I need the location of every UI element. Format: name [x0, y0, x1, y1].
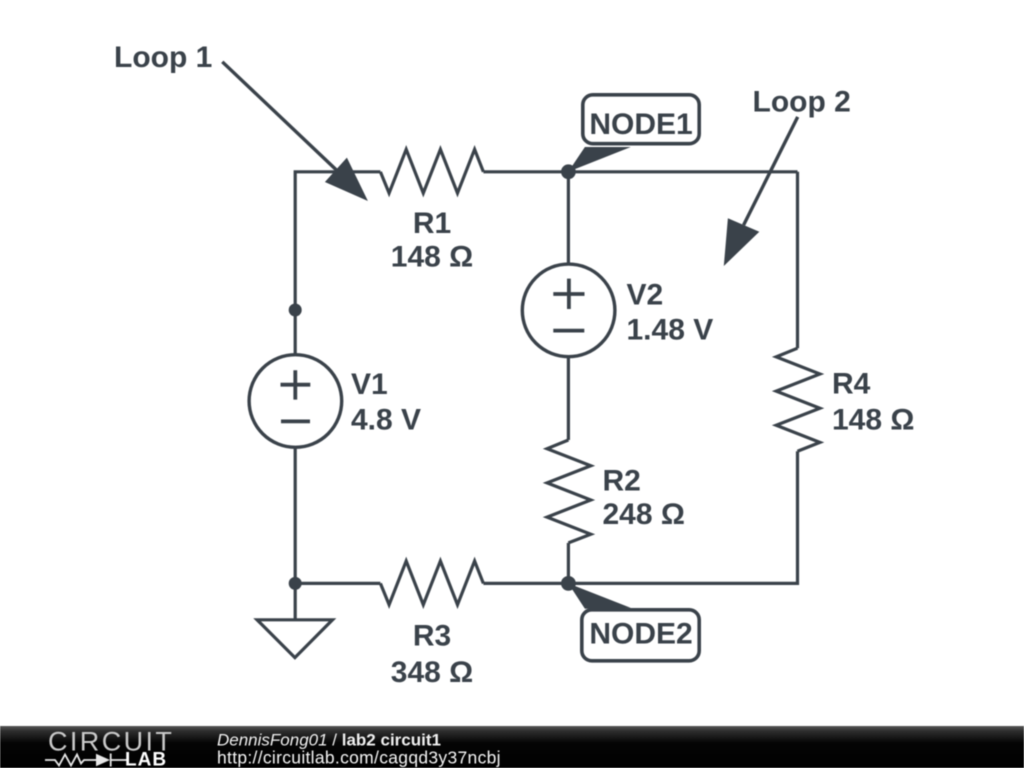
voltage source V2 circle [522, 264, 615, 357]
svg-text:1.48 V: 1.48 V [627, 314, 714, 347]
svg-text:Loop 2: Loop 2 [753, 86, 851, 119]
svg-text:148 Ω: 148 Ω [832, 404, 914, 437]
voltage source V1 circle [249, 355, 342, 448]
wire top-left to R1 [295, 172, 380, 355]
V2 minus sign [553, 329, 584, 333]
svg-text:R2: R2 [603, 465, 641, 498]
svg-text:NODE2: NODE2 [589, 618, 692, 651]
wire R2 to NODE2 [567, 543, 570, 584]
logo waveform resistor and diode [45, 754, 127, 767]
Loop 2 arrowhead [724, 218, 760, 266]
svg-text:http://circuitlab.com/cagqd3y3: http://circuitlab.com/cagqd3y37ncbj [217, 747, 501, 767]
resistor R1 [380, 149, 483, 193]
svg-text:348 Ω: 348 Ω [391, 656, 473, 689]
wire V2 to R2 [567, 357, 570, 440]
svg-text:148 Ω: 148 Ω [391, 241, 473, 274]
svg-text:R4: R4 [832, 368, 871, 401]
svg-text:V2: V2 [627, 279, 664, 312]
NODE2 callout tail [568, 583, 631, 608]
Loop 1 arrow line [222, 62, 338, 172]
V2 plus sign [553, 279, 584, 309]
NODE1 callout tail [568, 147, 631, 172]
wire NODE1 down to V2 [567, 172, 570, 264]
wire R3 to bottom-left corner [295, 582, 380, 585]
svg-text:248 Ω: 248 Ω [603, 498, 685, 531]
Loop 2 arrow line [744, 117, 798, 225]
svg-text:LAB: LAB [125, 750, 167, 768]
node dot NODE2 [561, 576, 576, 591]
resistor R3 [380, 561, 483, 605]
Loop 1 arrowhead [325, 158, 368, 201]
resistor R4 [776, 348, 820, 451]
wire NODE2 to R3 [483, 582, 568, 585]
node dot on left wire [289, 304, 302, 317]
NODE1 callout box [583, 95, 699, 144]
wire R1 to NODE1 [483, 170, 568, 173]
wire R4 to bottom-right corner [568, 451, 797, 583]
svg-text:V1: V1 [351, 368, 388, 401]
svg-text:NODE1: NODE1 [589, 108, 692, 141]
svg-text:R1: R1 [413, 207, 451, 240]
footer bar [0, 726, 1024, 768]
wire V1 down to bottom-left corner [294, 448, 297, 584]
wire NODE1 to top-right corner [568, 170, 797, 173]
node dot bottom-left junction [289, 577, 302, 590]
resistor R2 [547, 440, 591, 543]
V1 minus sign [281, 419, 310, 423]
ground symbol triangle [257, 620, 332, 658]
ground stem wire [294, 583, 297, 619]
svg-text:R3: R3 [413, 620, 451, 653]
node dot NODE1 [561, 164, 576, 179]
wire right side down to R4 [796, 172, 799, 348]
V1 plus sign [281, 370, 311, 399]
NODE2 callout box [582, 610, 699, 661]
svg-text:4.8 V: 4.8 V [351, 404, 421, 437]
svg-text:Loop 1: Loop 1 [114, 41, 212, 74]
